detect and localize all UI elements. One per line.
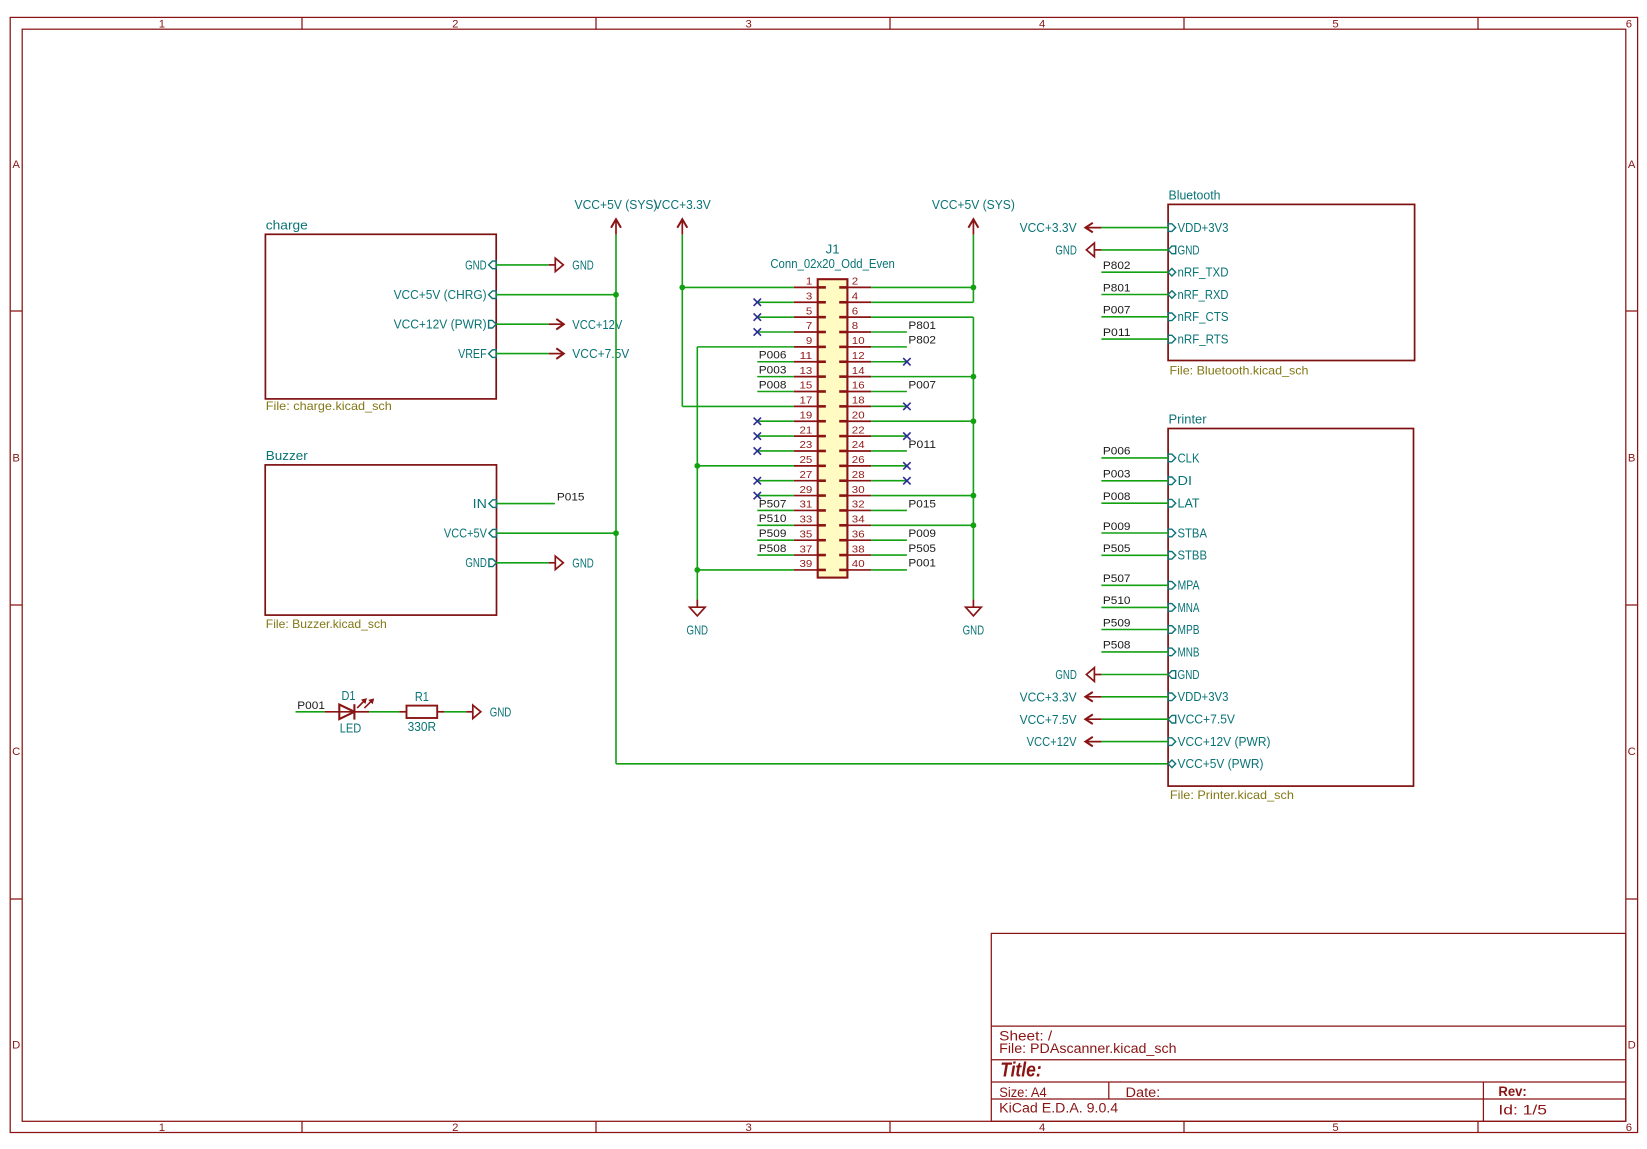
wire VCC+3.3V label to VDD+3V3 xyxy=(1101,227,1168,229)
svg-text:P001: P001 xyxy=(297,700,325,712)
no-connect X pin18 xyxy=(903,403,910,410)
sheet pin VDD+3V3 (Printer) xyxy=(1168,690,1228,704)
hierarchical label VCC+12V (printer) xyxy=(1027,735,1102,749)
hierarchical sheet "Printer" xyxy=(1168,429,1413,787)
junction VCC+5V rail / buzzer VCC xyxy=(613,530,619,536)
pin 38 stub (J1 right) xyxy=(847,554,871,556)
pin 1 stub (J1 left) xyxy=(794,286,818,288)
svg-text:2: 2 xyxy=(452,1122,458,1134)
svg-text:P505: P505 xyxy=(1103,543,1131,555)
pin 20 stub (J1 right) xyxy=(847,420,871,422)
svg-text:12: 12 xyxy=(852,351,865,362)
wire charge VCC+12V (PWR) to label xyxy=(496,323,549,325)
wire pin39 to GND rail xyxy=(697,569,794,571)
wire P006 to Printer pin xyxy=(1101,457,1168,459)
svg-text:P001: P001 xyxy=(908,558,936,570)
svg-text:8: 8 xyxy=(852,321,859,332)
svg-text:Buzzer: Buzzer xyxy=(266,449,308,463)
svg-text:6: 6 xyxy=(1626,1122,1632,1134)
wire pin12 no-connect stub xyxy=(871,361,907,363)
pin 27 stub (J1 left) xyxy=(794,480,818,482)
wire pin18 no-connect stub xyxy=(871,405,907,407)
wire P011 to Bluetooth pin xyxy=(1101,338,1168,340)
svg-text:330R: 330R xyxy=(408,720,437,734)
wire P009 to Printer pin xyxy=(1101,532,1168,534)
sheet pin GND (Bluetooth) xyxy=(1168,243,1199,257)
junction VCC+5V rail / pin2 xyxy=(971,285,977,291)
svg-text:37: 37 xyxy=(800,544,813,555)
svg-text:Conn_02x20_Odd_Even: Conn_02x20_Odd_Even xyxy=(770,257,895,271)
wire pin16 to label P007 xyxy=(871,390,907,392)
svg-text:P006: P006 xyxy=(759,350,787,362)
wire Buzzer GND to label xyxy=(497,562,549,564)
resistor R1 body xyxy=(407,706,438,718)
svg-text:GND: GND xyxy=(1055,244,1077,258)
wire pin24 to label P011 xyxy=(871,450,907,452)
wire VCC+3.3V rail to pin 17 xyxy=(682,405,794,407)
svg-text:1: 1 xyxy=(806,277,813,288)
pin 29 stub (J1 left) xyxy=(794,495,818,497)
svg-text:LED: LED xyxy=(340,721,362,735)
svg-text:R1: R1 xyxy=(415,690,429,704)
wire pin35 to label P509 xyxy=(757,539,794,541)
svg-text:DI: DI xyxy=(1178,474,1193,488)
wire P510 to Printer pin xyxy=(1101,606,1168,608)
svg-text:27: 27 xyxy=(800,470,813,481)
wire P001 to LED anode xyxy=(296,711,325,713)
wire P507 to Printer pin xyxy=(1101,584,1168,586)
resistor R1 pin 2 xyxy=(437,711,444,713)
wire pin26 no-connect stub xyxy=(871,465,907,467)
wire R1 to GND label xyxy=(444,711,466,713)
pin 13 stub (J1 left) xyxy=(794,376,818,378)
pin 24 stub (J1 right) xyxy=(847,450,871,452)
junction right rail / pin30 xyxy=(971,493,977,499)
wire pin7 no-connect stub xyxy=(757,331,794,333)
svg-text:D: D xyxy=(1628,1039,1636,1051)
svg-text:GND: GND xyxy=(490,705,512,719)
pin 2 stub (J1 right) xyxy=(847,286,871,288)
pin 30 stub (J1 right) xyxy=(847,495,871,497)
pin 23 stub (J1 left) xyxy=(794,450,818,452)
pin 26 stub (J1 right) xyxy=(847,465,871,467)
svg-text:4: 4 xyxy=(1039,18,1045,30)
svg-text:P007: P007 xyxy=(908,379,936,391)
pin 14 stub (J1 right) xyxy=(847,376,871,378)
junction VCC+3.3V rail / pin1 wire xyxy=(679,285,685,291)
svg-text:9: 9 xyxy=(806,336,813,347)
svg-text:4: 4 xyxy=(1039,1122,1045,1134)
wire pin4 to rail corner xyxy=(871,301,973,303)
pin 36 stub (J1 right) xyxy=(847,539,871,541)
svg-text:nRF_TXD: nRF_TXD xyxy=(1178,266,1229,280)
svg-text:6: 6 xyxy=(1626,18,1632,30)
svg-text:File: Printer.kicad_sch: File: Printer.kicad_sch xyxy=(1170,789,1294,802)
svg-text:P802: P802 xyxy=(908,335,936,347)
hierarchical label GND (buzzer) xyxy=(549,556,594,570)
svg-text:Title:: Title: xyxy=(1000,1060,1041,1082)
wire pin38 to label P505 xyxy=(871,554,907,556)
svg-text:IN: IN xyxy=(473,497,487,511)
svg-text:charge: charge xyxy=(266,218,308,232)
svg-text:P802: P802 xyxy=(1103,260,1131,272)
sheet pin VCC+5V (PWR) (Printer) xyxy=(1168,757,1263,771)
svg-text:VCC+3.3V: VCC+3.3V xyxy=(1020,221,1078,235)
svg-text:GND: GND xyxy=(1178,243,1200,257)
svg-text:VCC+5V (PWR): VCC+5V (PWR) xyxy=(1178,757,1264,771)
wire pin3 no-connect stub xyxy=(757,301,794,303)
wire pin11 to label P006 xyxy=(757,361,794,363)
no-connect X pin22 xyxy=(903,432,910,439)
svg-text:CLK: CLK xyxy=(1178,451,1201,465)
svg-text:P008: P008 xyxy=(1103,491,1131,503)
svg-text:Printer: Printer xyxy=(1169,413,1207,427)
sheet pin VCC+5V (Buzzer) xyxy=(444,527,497,541)
wire pin28 no-connect stub xyxy=(871,480,907,482)
sheet pin MNB (Printer) xyxy=(1168,645,1199,659)
svg-text:23: 23 xyxy=(800,440,813,451)
power symbol VCC+5V (SYS) left xyxy=(575,198,658,235)
svg-text:40: 40 xyxy=(852,559,865,570)
svg-text:VCC+5V (CHRG): VCC+5V (CHRG) xyxy=(394,288,487,302)
wire VCC+12V label to Printer xyxy=(1101,741,1168,743)
hierarchical label GND (charge) xyxy=(549,258,594,272)
pin 18 stub (J1 right) xyxy=(847,405,871,407)
svg-text:1: 1 xyxy=(159,1122,165,1134)
no-connect X pin23 xyxy=(754,447,761,454)
wire P508 to Printer pin xyxy=(1101,651,1168,653)
svg-text:GND: GND xyxy=(572,259,594,273)
sheet pin CLK (Printer) xyxy=(1168,451,1200,465)
wire pin2 to VCC+5V rail xyxy=(871,286,973,288)
svg-text:39: 39 xyxy=(800,559,813,570)
no-connect X pin28 xyxy=(903,477,910,484)
svg-text:C: C xyxy=(12,746,20,758)
svg-text:P015: P015 xyxy=(557,492,585,504)
no-connect X pin26 xyxy=(903,462,910,469)
svg-text:22: 22 xyxy=(852,425,865,436)
svg-text:35: 35 xyxy=(800,529,813,540)
svg-text:D: D xyxy=(12,1039,20,1051)
svg-text:GND: GND xyxy=(687,624,709,638)
wire pin22 no-connect stub xyxy=(871,435,907,437)
svg-text:25: 25 xyxy=(800,455,813,466)
svg-text:P015: P015 xyxy=(908,498,936,510)
pin 3 stub (J1 left) xyxy=(794,301,818,303)
sheet pin VCC+7.5V (Printer) xyxy=(1168,713,1235,727)
svg-text:P507: P507 xyxy=(759,498,787,510)
svg-text:P508: P508 xyxy=(1103,640,1131,652)
wire pin5 no-connect stub xyxy=(757,316,794,318)
pin 37 stub (J1 left) xyxy=(794,554,818,556)
pin 35 stub (J1 left) xyxy=(794,539,818,541)
wire VCC+5V(PWR) horizontal to Printer xyxy=(616,763,1168,765)
svg-text:3: 3 xyxy=(746,1122,752,1134)
svg-text:28: 28 xyxy=(852,470,865,481)
svg-text:P011: P011 xyxy=(908,439,936,451)
hierarchical sheet "charge" xyxy=(265,234,496,399)
wire VCC+3.3V vertical rail xyxy=(681,235,683,407)
svg-text:KiCad E.D.A. 9.0.4: KiCad E.D.A. 9.0.4 xyxy=(999,1101,1119,1116)
sheet pin nRF_RXD xyxy=(1168,288,1228,302)
svg-text:File: Bluetooth.kicad_sch: File: Bluetooth.kicad_sch xyxy=(1170,364,1309,377)
svg-text:2: 2 xyxy=(852,277,859,288)
wire charge GND to label xyxy=(496,264,549,266)
no-connect X pin29 xyxy=(754,492,761,499)
svg-text:MPB: MPB xyxy=(1178,623,1200,637)
svg-text:3: 3 xyxy=(806,291,813,302)
svg-text:3: 3 xyxy=(746,18,752,30)
junction right rail / pin14 xyxy=(971,374,977,380)
svg-text:38: 38 xyxy=(852,544,865,555)
svg-text:GND: GND xyxy=(1055,668,1077,682)
svg-text:Bluetooth: Bluetooth xyxy=(1169,188,1221,202)
pin 5 stub (J1 left) xyxy=(794,316,818,318)
sheet pin VREF (charge) xyxy=(458,347,496,361)
svg-text:6: 6 xyxy=(852,306,859,317)
svg-text:14: 14 xyxy=(852,366,865,377)
wire pin9 to GND rail corner xyxy=(697,346,794,348)
svg-text:16: 16 xyxy=(852,381,865,392)
svg-text:P505: P505 xyxy=(908,543,936,555)
wire pin40 to label P001 xyxy=(871,569,907,571)
wire P505 to Printer pin xyxy=(1101,554,1168,556)
wire pin31 to label P507 xyxy=(757,509,794,511)
svg-text:P510: P510 xyxy=(1103,595,1131,607)
pin 6 stub (J1 right) xyxy=(847,316,871,318)
svg-text:LAT: LAT xyxy=(1178,497,1200,511)
svg-text:VCC+7.5V: VCC+7.5V xyxy=(1178,713,1236,727)
svg-text:4: 4 xyxy=(852,291,859,302)
wire left GND rail vertical xyxy=(696,347,698,600)
svg-text:1: 1 xyxy=(159,18,165,30)
pin 22 stub (J1 right) xyxy=(847,435,871,437)
svg-text:B: B xyxy=(12,452,20,464)
LED D1 pin 2 (cathode) xyxy=(354,711,369,713)
wire VCC+5V(SYS) right rail upper xyxy=(972,235,974,303)
wire pin29 no-connect stub xyxy=(757,495,794,497)
svg-text:5: 5 xyxy=(1332,18,1338,30)
svg-text:VCC+5V (SYS): VCC+5V (SYS) xyxy=(932,198,1015,212)
wire pin32 to label P015 xyxy=(871,509,907,511)
no-connect X pin5 xyxy=(754,313,761,320)
svg-text:Id: 1/5: Id: 1/5 xyxy=(1498,1103,1547,1118)
svg-text:32: 32 xyxy=(852,500,865,511)
wire right GND rail vertical xyxy=(972,317,974,599)
sheet pin STBA (Printer) xyxy=(1168,526,1207,540)
svg-text:7: 7 xyxy=(806,321,813,332)
hierarchical label VCC+3.3V (printer) xyxy=(1020,690,1102,704)
wire pin8 to label P801 xyxy=(871,331,907,333)
svg-text:33: 33 xyxy=(800,515,813,526)
LED D1 symbol xyxy=(339,698,374,720)
svg-text:VCC+12V (PWR): VCC+12V (PWR) xyxy=(1178,735,1271,749)
svg-text:17: 17 xyxy=(800,396,813,407)
wire GND label to Bluetooth GND xyxy=(1101,249,1168,251)
junction right rail / pin34 xyxy=(971,522,977,528)
svg-text:GND: GND xyxy=(963,624,985,638)
svg-text:P509: P509 xyxy=(1103,617,1131,629)
svg-text:VCC+12V: VCC+12V xyxy=(1027,735,1078,749)
svg-text:P009: P009 xyxy=(1103,521,1131,533)
wire pin15 to label P008 xyxy=(757,390,794,392)
pin 25 stub (J1 left) xyxy=(794,465,818,467)
wire charge VREF to label xyxy=(496,353,549,355)
svg-text:File: Buzzer.kicad_sch: File: Buzzer.kicad_sch xyxy=(266,618,387,631)
pin 28 stub (J1 right) xyxy=(847,480,871,482)
svg-text:Rev:: Rev: xyxy=(1498,1084,1526,1099)
pin 16 stub (J1 right) xyxy=(847,390,871,392)
no-connect X pin3 xyxy=(754,299,761,306)
svg-text:11: 11 xyxy=(800,351,813,362)
svg-text:P801: P801 xyxy=(908,320,936,332)
no-connect X pin7 xyxy=(754,328,761,335)
junction GND rail / pin25 xyxy=(694,463,700,469)
svg-text:J1: J1 xyxy=(826,243,840,257)
wire P003 to Printer pin xyxy=(1101,480,1168,482)
svg-text:P508: P508 xyxy=(759,543,787,555)
wire P007 to Bluetooth pin xyxy=(1101,316,1168,318)
svg-text:C: C xyxy=(1628,746,1636,758)
hierarchical label VCC+7.5V xyxy=(549,347,630,361)
svg-text:Date:: Date: xyxy=(1126,1085,1161,1100)
wire Buzzer IN to P015 label xyxy=(497,503,555,505)
wire pin19 no-connect stub xyxy=(757,420,794,422)
sheet pin GND (Buzzer) xyxy=(465,556,496,570)
pin 17 stub (J1 left) xyxy=(794,405,818,407)
hierarchical label GND (LED) xyxy=(466,705,511,719)
sheet pin VDD+3V3 (Bluetooth) xyxy=(1168,221,1228,235)
svg-text:VCC+7.5V: VCC+7.5V xyxy=(572,347,630,361)
pin 9 stub (J1 left) xyxy=(794,346,818,348)
svg-text:GND: GND xyxy=(465,556,487,570)
svg-text:VCC+3.3V: VCC+3.3V xyxy=(654,198,712,212)
hierarchical label GND (printer) xyxy=(1055,668,1101,683)
wire pin27 no-connect stub xyxy=(757,480,794,482)
wire VCC+7.5V label to Printer xyxy=(1101,718,1168,720)
junction GND rail / pin39 xyxy=(694,567,700,573)
hierarchical label VCC+12V xyxy=(549,318,623,332)
pin 12 stub (J1 right) xyxy=(847,361,871,363)
hierarchical sheet "Buzzer" xyxy=(265,465,496,615)
svg-text:VCC+3.3V: VCC+3.3V xyxy=(1020,690,1078,704)
svg-text:nRF_RXD: nRF_RXD xyxy=(1178,288,1229,302)
svg-text:nRF_CTS: nRF_CTS xyxy=(1178,310,1229,324)
power symbol GND (right) xyxy=(963,600,985,638)
power symbol GND (left) xyxy=(687,600,709,638)
sheet pin MPB (Printer) xyxy=(1168,623,1199,637)
svg-text:Size: A4: Size: A4 xyxy=(999,1085,1047,1100)
sheet pin VCC+12V (PWR) (charge) xyxy=(394,318,497,332)
wire pin36 to label P009 xyxy=(871,539,907,541)
sheet pin VCC+12V (PWR) (Printer) xyxy=(1168,735,1270,749)
wire pin33 to label P510 xyxy=(757,524,794,526)
svg-text:VDD+3V3: VDD+3V3 xyxy=(1178,221,1229,235)
hierarchical sheet "Bluetooth" xyxy=(1168,204,1415,360)
no-connect X pin27 xyxy=(754,477,761,484)
wire pin6 to GND rail corner xyxy=(871,316,973,318)
svg-text:B: B xyxy=(1628,452,1636,464)
svg-text:P011: P011 xyxy=(1103,327,1131,339)
svg-text:GND: GND xyxy=(1178,668,1200,682)
svg-text:21: 21 xyxy=(800,425,813,436)
wire P801 to Bluetooth pin xyxy=(1101,294,1168,296)
hierarchical label VCC+7.5V (printer) xyxy=(1020,713,1102,727)
pin 21 stub (J1 left) xyxy=(794,435,818,437)
svg-text:13: 13 xyxy=(800,366,813,377)
svg-text:10: 10 xyxy=(852,336,865,347)
hierarchical label GND (bluetooth) xyxy=(1055,243,1101,258)
wire P008 to Printer pin xyxy=(1101,502,1168,504)
junction VCC+5V rail / charge CHRG xyxy=(613,292,619,298)
sheet pin MPA (Printer) xyxy=(1168,579,1200,593)
wire pin1 to VCC+3.3V rail xyxy=(682,286,794,288)
wire LED to R1 xyxy=(369,711,399,713)
pin 11 stub (J1 left) xyxy=(794,361,818,363)
svg-text:File: charge.kicad_sch: File: charge.kicad_sch xyxy=(266,400,392,413)
svg-text:30: 30 xyxy=(852,485,865,496)
wire pin14 to right GND rail xyxy=(871,376,973,378)
wire VCC+5V(SYS) vertical rail xyxy=(615,235,617,764)
svg-text:nRF_RTS: nRF_RTS xyxy=(1178,333,1229,347)
svg-text:18: 18 xyxy=(852,396,865,407)
pin 40 stub (J1 right) xyxy=(847,569,871,571)
sheet pin LAT (Printer) xyxy=(1168,497,1200,511)
wire pin20 to right GND rail xyxy=(871,420,973,422)
junction right rail / pin20 xyxy=(971,418,977,424)
pin 32 stub (J1 right) xyxy=(847,509,871,511)
svg-text:26: 26 xyxy=(852,455,865,466)
sheet pin GND (Printer) xyxy=(1168,668,1199,682)
svg-text:P006: P006 xyxy=(1103,446,1131,458)
svg-text:P510: P510 xyxy=(759,513,787,525)
svg-text:VCC+12V (PWR): VCC+12V (PWR) xyxy=(394,318,487,332)
svg-text:P003: P003 xyxy=(759,364,787,376)
wire pin21 no-connect stub xyxy=(757,435,794,437)
svg-text:STBA: STBA xyxy=(1178,526,1208,540)
svg-text:P007: P007 xyxy=(1103,305,1131,317)
sheet pin MNA (Printer) xyxy=(1168,601,1200,615)
wire Buzzer VCC+5V to rail xyxy=(497,532,617,534)
svg-text:VCC+7.5V: VCC+7.5V xyxy=(1020,713,1078,727)
svg-text:P008: P008 xyxy=(759,379,787,391)
LED D1 pin 1 (anode) xyxy=(325,711,355,713)
wire pin25 to GND rail xyxy=(697,465,794,467)
svg-text:P509: P509 xyxy=(759,528,787,540)
svg-text:24: 24 xyxy=(852,440,865,451)
svg-text:D1: D1 xyxy=(342,689,356,703)
wire GND label to Printer GND xyxy=(1101,674,1168,676)
svg-text:29: 29 xyxy=(800,485,813,496)
wire pin23 no-connect stub xyxy=(757,450,794,452)
sheet pin nRF_TXD xyxy=(1168,266,1228,280)
svg-text:File: PDAscanner.kicad_sch: File: PDAscanner.kicad_sch xyxy=(999,1041,1176,1056)
wire VCC+3.3V label to VDD+3V3 (printer) xyxy=(1101,696,1168,698)
wire pin30 to right GND rail xyxy=(871,495,973,497)
svg-text:A: A xyxy=(1628,159,1636,171)
svg-text:15: 15 xyxy=(800,381,813,392)
connector J1 body xyxy=(818,279,848,577)
svg-text:STBB: STBB xyxy=(1178,549,1208,563)
svg-text:VDD+3V3: VDD+3V3 xyxy=(1178,690,1229,704)
pin 19 stub (J1 left) xyxy=(794,420,818,422)
pin 34 stub (J1 right) xyxy=(847,524,871,526)
svg-text:20: 20 xyxy=(852,410,865,421)
svg-text:GND: GND xyxy=(572,556,594,570)
wire pin13 to label P003 xyxy=(757,376,794,378)
svg-text:VREF: VREF xyxy=(458,347,487,361)
svg-text:36: 36 xyxy=(852,529,865,540)
